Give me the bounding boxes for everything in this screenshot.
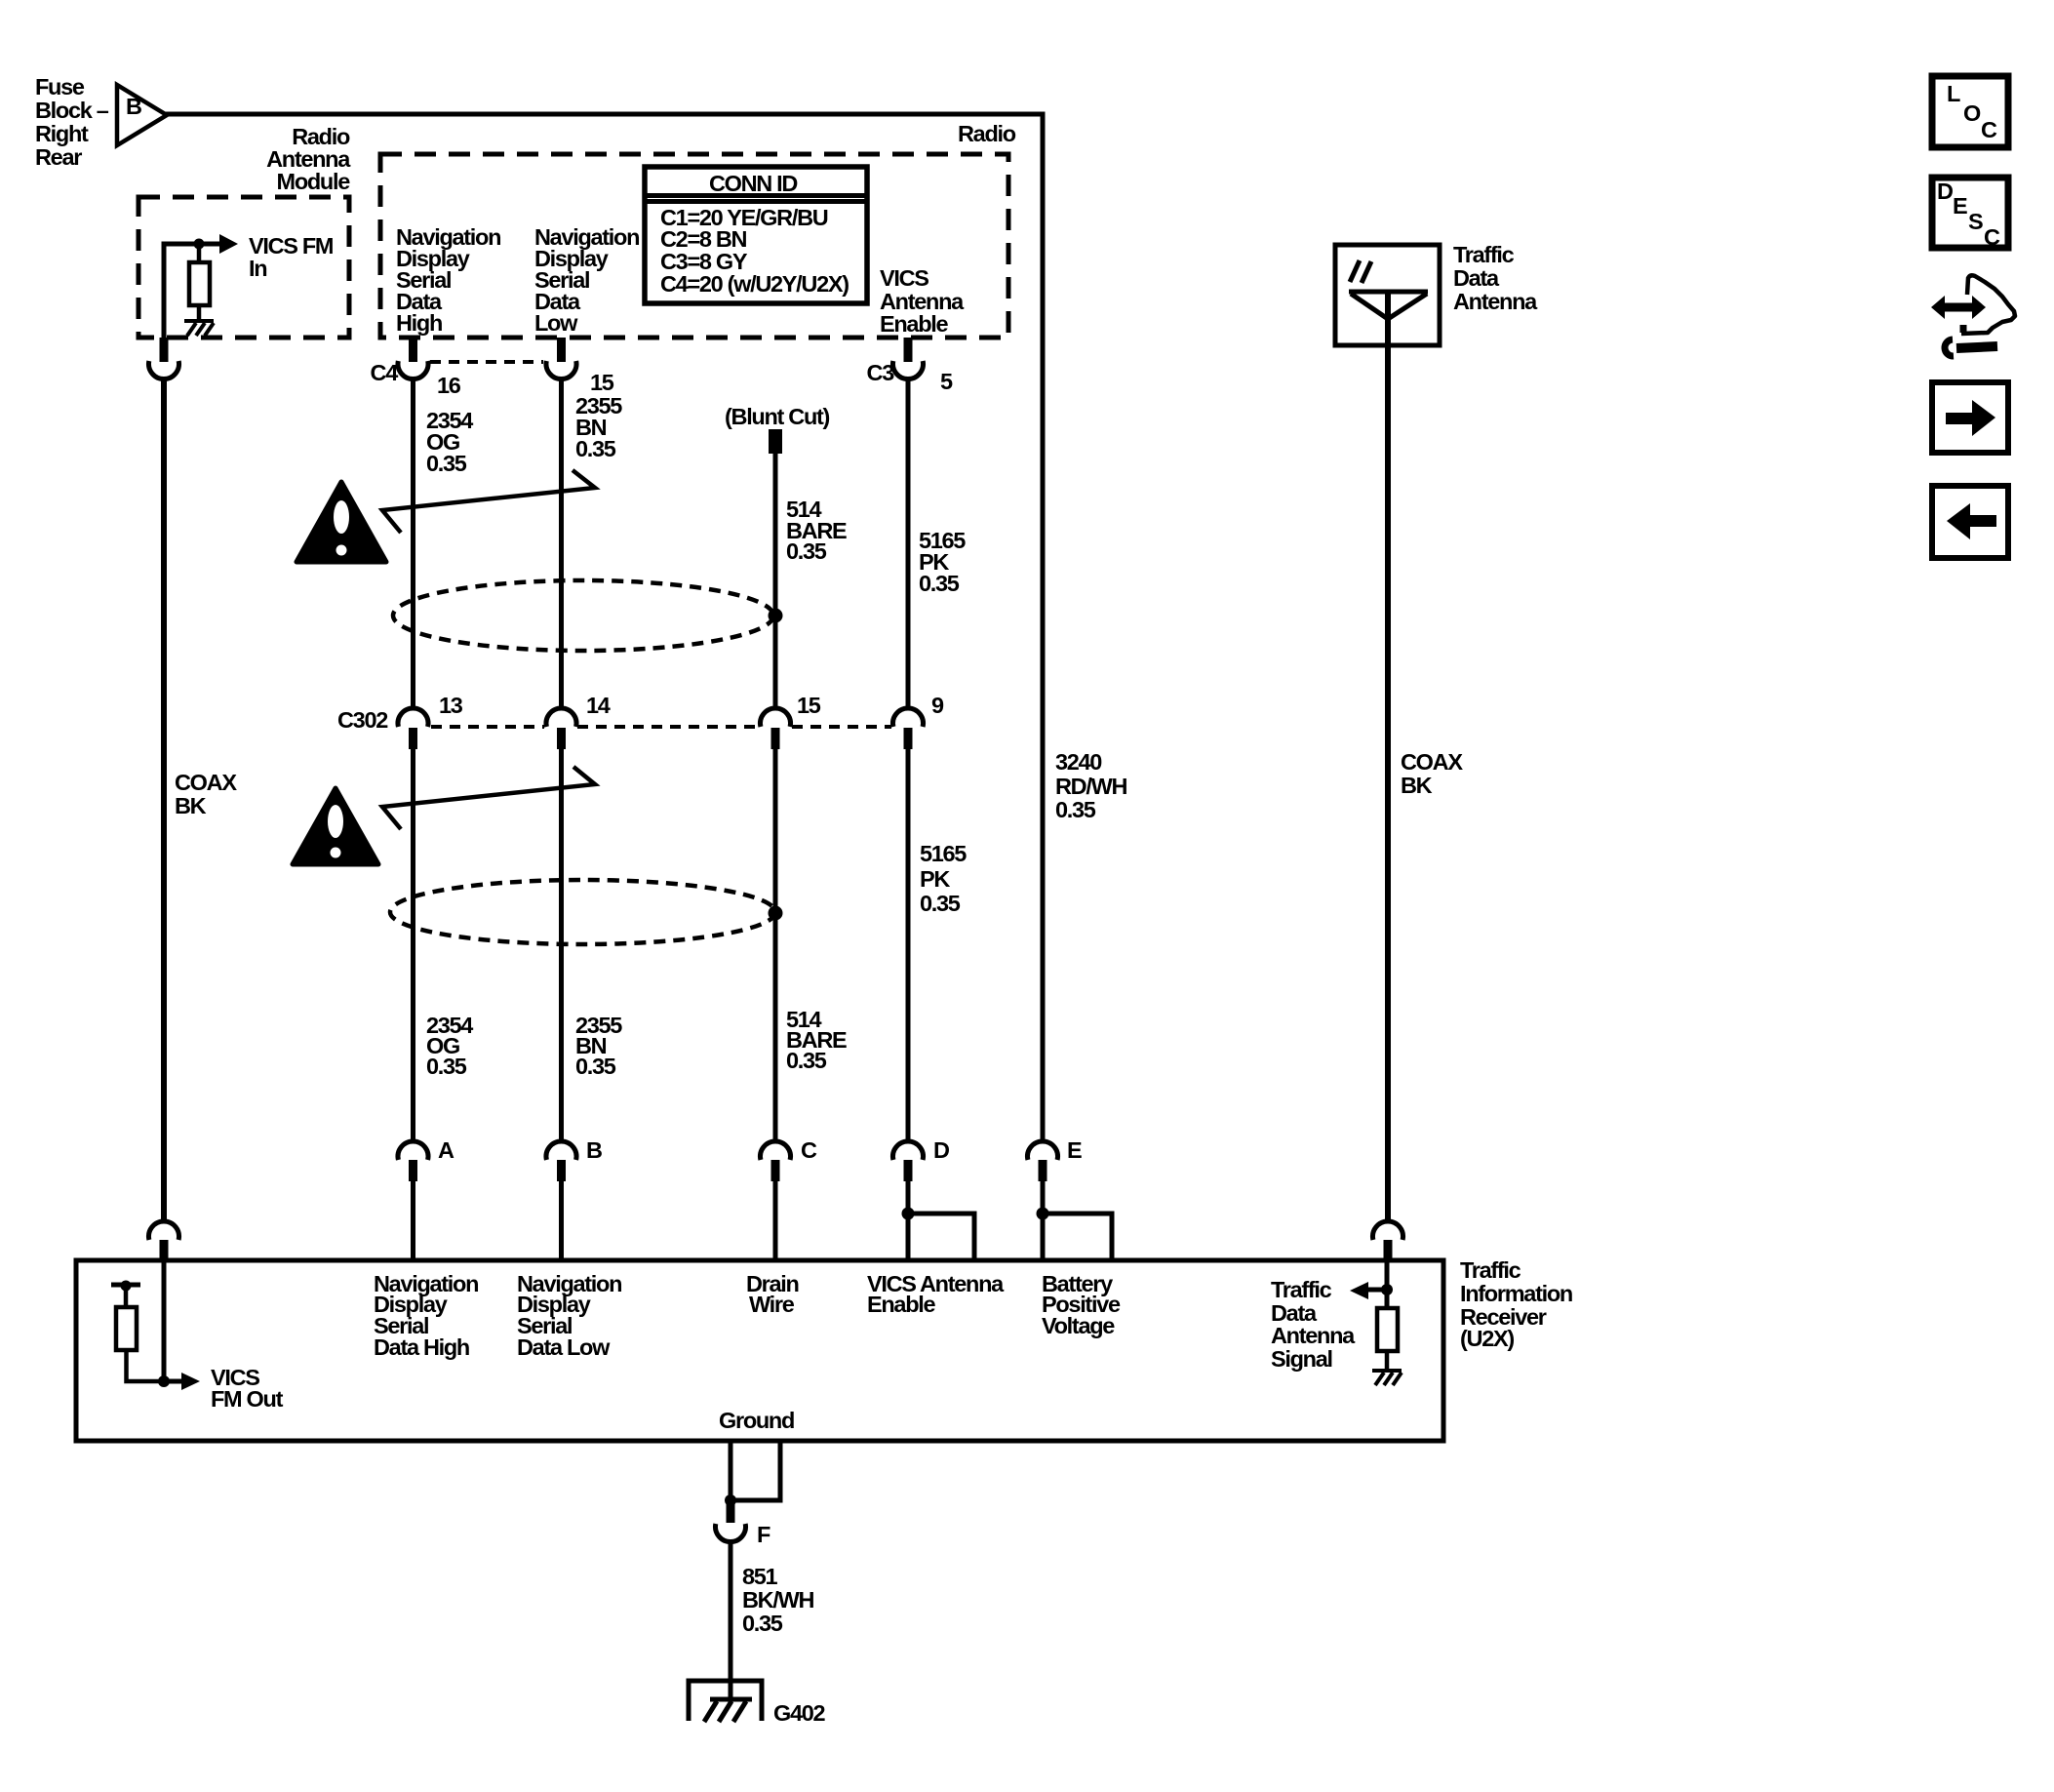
svg-text:15: 15 (590, 370, 614, 395)
label 2354 OG 0.35 (lower) (426, 1013, 473, 1079)
svg-text:16: 16 (437, 373, 461, 398)
svg-text:(U2X): (U2X) (1460, 1326, 1514, 1351)
connector pin 15 (546, 338, 614, 395)
ground (module internal) (184, 321, 214, 336)
svg-text:Signal: Signal (1271, 1346, 1332, 1372)
wire 2354 lower (411, 749, 415, 1142)
connector pin C (761, 1137, 818, 1181)
label 2355 BN 0.35 (upper) (575, 393, 622, 461)
svg-text:Enable: Enable (880, 311, 948, 337)
connector C302 pin 14 (546, 693, 611, 749)
svg-text:High: High (396, 310, 442, 336)
fuse block label (35, 74, 109, 170)
connector C302 pin 13 (337, 693, 463, 749)
svg-text:Voltage: Voltage (1042, 1313, 1115, 1338)
connector C4 pin 16 (371, 338, 461, 398)
wire 5165 lower (906, 749, 911, 1142)
svg-text:F: F (757, 1522, 770, 1547)
icon arrow right (1932, 382, 2008, 453)
svg-text:D: D (933, 1137, 949, 1163)
blunt cut terminal (769, 429, 782, 454)
wire 2355 upper (559, 379, 564, 709)
receiver pin labels (374, 1271, 478, 1360)
Traffic Data Antenna box (1335, 245, 1440, 345)
svg-text:Data: Data (1453, 265, 1500, 291)
svg-text:BK/WH: BK/WH (742, 1587, 813, 1613)
wire pin A lead (411, 1181, 415, 1260)
label 514 BARE 0.35 (lower) (786, 1007, 847, 1073)
svg-text:C: C (801, 1137, 817, 1163)
connector pin E (1028, 1137, 1083, 1181)
twisted-pair flag 2 (382, 767, 595, 829)
svg-text:13: 13 (439, 693, 463, 718)
svg-text:Fuse: Fuse (35, 74, 85, 100)
connector: left coax at module (top) (149, 338, 179, 379)
node: drain junction 2 (769, 906, 783, 921)
svg-text:Module: Module (277, 169, 351, 194)
svg-text:C: C (1981, 117, 1997, 142)
connector pin F (716, 1501, 771, 1547)
svg-text:PK: PK (920, 866, 950, 892)
svg-text:COAX: COAX (1401, 749, 1463, 775)
svg-text:5165: 5165 (920, 841, 967, 866)
label 2354 OG 0.35 (upper) (426, 408, 473, 476)
dashed line C302 row (431, 725, 891, 729)
Radio Antenna Module label (266, 124, 351, 194)
svg-text:9: 9 (931, 693, 944, 718)
svg-text:851: 851 (742, 1564, 778, 1589)
svg-text:COAX: COAX (175, 770, 237, 795)
receiver internal: antenna signal circuit (1350, 1260, 1402, 1385)
connector C302 pin 15 (761, 693, 821, 749)
svg-text:0.35: 0.35 (920, 891, 961, 916)
ground G402 (689, 1681, 826, 1726)
svg-text:14: 14 (586, 693, 611, 718)
svg-text:15: 15 (797, 693, 821, 718)
icon arrow left (1932, 486, 2008, 558)
svg-text:E: E (1067, 1137, 1082, 1163)
Navigation Display Serial Data High label (radio) (396, 224, 500, 336)
connector C3 pin 5 (867, 338, 953, 394)
svg-text:Antenna: Antenna (1271, 1323, 1356, 1348)
svg-text:In: In (249, 256, 266, 281)
svg-text:Low: Low (534, 310, 578, 336)
svg-text:BK: BK (175, 793, 207, 818)
wire: ground exit from receiver (731, 1441, 780, 1500)
svg-text:Traffic: Traffic (1453, 242, 1515, 267)
svg-text:0.35: 0.35 (426, 1054, 467, 1079)
connector pin D (893, 1137, 949, 1181)
svg-text:0.35: 0.35 (1055, 797, 1096, 822)
Traffic Information Receiver box (76, 1260, 1443, 1441)
svg-text:L: L (1947, 81, 1960, 106)
svg-text:Information: Information (1460, 1281, 1572, 1306)
svg-text:Rear: Rear (35, 144, 82, 170)
arrowhead VICS FM In (219, 234, 238, 254)
svg-text:BK: BK (1401, 773, 1433, 798)
wire 2354 upper (411, 379, 415, 709)
connector: left coax at receiver (148, 1221, 178, 1260)
resistor (module termination) (189, 262, 210, 305)
svg-text:0.35: 0.35 (786, 1048, 827, 1073)
connector: right coax at receiver (1372, 1221, 1402, 1260)
icon hand with wrench (1931, 275, 2015, 356)
CONN ID table (645, 167, 867, 303)
wire: battery feed from fuse block to pin E (165, 114, 1043, 1142)
twisted-pair flag 1 (382, 470, 595, 533)
svg-text:5: 5 (940, 369, 953, 394)
wire: right coax run (1385, 292, 1391, 1222)
svg-text:Wire: Wire (749, 1292, 795, 1317)
Navigation Display Serial Data Low label (radio) (534, 224, 639, 336)
svg-text:Traffic: Traffic (1460, 1257, 1521, 1283)
connector C302 pin 9 (893, 693, 944, 749)
wire: resistor branch (197, 244, 202, 262)
svg-text:(Blunt Cut): (Blunt Cut) (725, 404, 830, 429)
svg-text:C3: C3 (867, 360, 895, 385)
shield ellipse 1 (393, 580, 773, 651)
svg-text:B: B (126, 94, 141, 119)
svg-text:Traffic: Traffic (1271, 1277, 1332, 1302)
Traffic Information Receiver (U2X) label (1460, 1257, 1572, 1351)
Traffic Data Antenna label (1453, 242, 1538, 314)
svg-text:S: S (1968, 209, 1983, 234)
Radio Antenna Module dashed box (138, 197, 349, 338)
svg-text:0.35: 0.35 (426, 451, 467, 476)
warning triangle 2 (293, 788, 378, 864)
svg-text:CONN ID: CONN ID (709, 171, 797, 196)
svg-text:A: A (438, 1137, 454, 1163)
svg-text:G402: G402 (773, 1700, 826, 1726)
svg-text:C302: C302 (337, 707, 388, 733)
wire 851 (729, 1540, 733, 1702)
svg-text:VICS: VICS (880, 265, 928, 291)
receiver internal: VICS FM Out circuit (111, 1260, 284, 1412)
svg-text:3240: 3240 (1055, 749, 1102, 775)
label 2355 BN 0.35 (lower) (575, 1013, 622, 1079)
pigtail dashed line C4-15 (430, 360, 543, 364)
svg-text:Ground: Ground (719, 1408, 794, 1433)
wire pin C lead (773, 1181, 778, 1260)
wire: VICS FM In lead inside module (164, 244, 220, 339)
wire 5165 upper (906, 379, 911, 709)
icon DESC (1932, 178, 2008, 250)
warning triangle 1 (296, 482, 386, 562)
Radio dashed box (380, 154, 1008, 338)
svg-text:0.35: 0.35 (575, 436, 616, 461)
node: junction on VICS FM In lead (194, 239, 205, 250)
wire pin B lead (559, 1181, 564, 1260)
svg-text:Data Low: Data Low (517, 1334, 611, 1360)
svg-text:E: E (1953, 193, 1967, 219)
svg-text:0.35: 0.35 (786, 538, 827, 564)
svg-text:B: B (586, 1137, 602, 1163)
wire: resistor to ground (197, 305, 202, 321)
label 5165 PK 0.35 (upper) (919, 528, 966, 596)
icon LOC (1932, 76, 2008, 147)
label 3240 RD/WH 0.35 (1055, 749, 1126, 822)
svg-text:Antenna: Antenna (1453, 289, 1538, 314)
label 514 BARE 0.35 (upper) (786, 497, 847, 564)
svg-text:RD/WH: RD/WH (1055, 774, 1126, 799)
connector pin B (546, 1137, 602, 1181)
node: drain junction 1 (769, 609, 783, 623)
svg-text:0.35: 0.35 (919, 571, 960, 596)
svg-text:FM Out: FM Out (211, 1386, 284, 1412)
svg-text:Enable: Enable (867, 1292, 935, 1317)
label 5165 PK 0.35 (lower) (920, 841, 967, 916)
svg-text:D: D (1937, 179, 1953, 204)
VICS Antenna Enable label (radio) (880, 265, 965, 337)
wire 514 lower (773, 749, 778, 1142)
svg-text:0.35: 0.35 (575, 1054, 616, 1079)
svg-text:Data High: Data High (374, 1334, 469, 1360)
svg-text:C4=20 (w/U2Y/U2X): C4=20 (w/U2Y/U2X) (660, 271, 849, 297)
shield ellipse 2 (390, 880, 775, 944)
wire: left coax run (161, 379, 167, 1222)
wire pin D lead with jog (908, 1181, 974, 1260)
svg-text:0.35: 0.35 (742, 1611, 783, 1636)
label 851 BK/WH 0.35 (742, 1564, 813, 1636)
svg-text:Radio: Radio (958, 121, 1016, 146)
connector triangle B (Fuse Block - Right Rear) (117, 85, 167, 145)
connector pin A (398, 1137, 454, 1181)
svg-text:O: O (1963, 100, 1981, 126)
svg-text:C: C (1984, 224, 2000, 250)
wire 514 drain upper (773, 454, 778, 709)
svg-text:C4: C4 (371, 360, 399, 385)
svg-text:Right: Right (35, 121, 89, 146)
svg-text:Block –: Block – (35, 98, 109, 123)
wire pin E lead with jog (1043, 1181, 1112, 1260)
wire 2355 lower (559, 749, 564, 1142)
